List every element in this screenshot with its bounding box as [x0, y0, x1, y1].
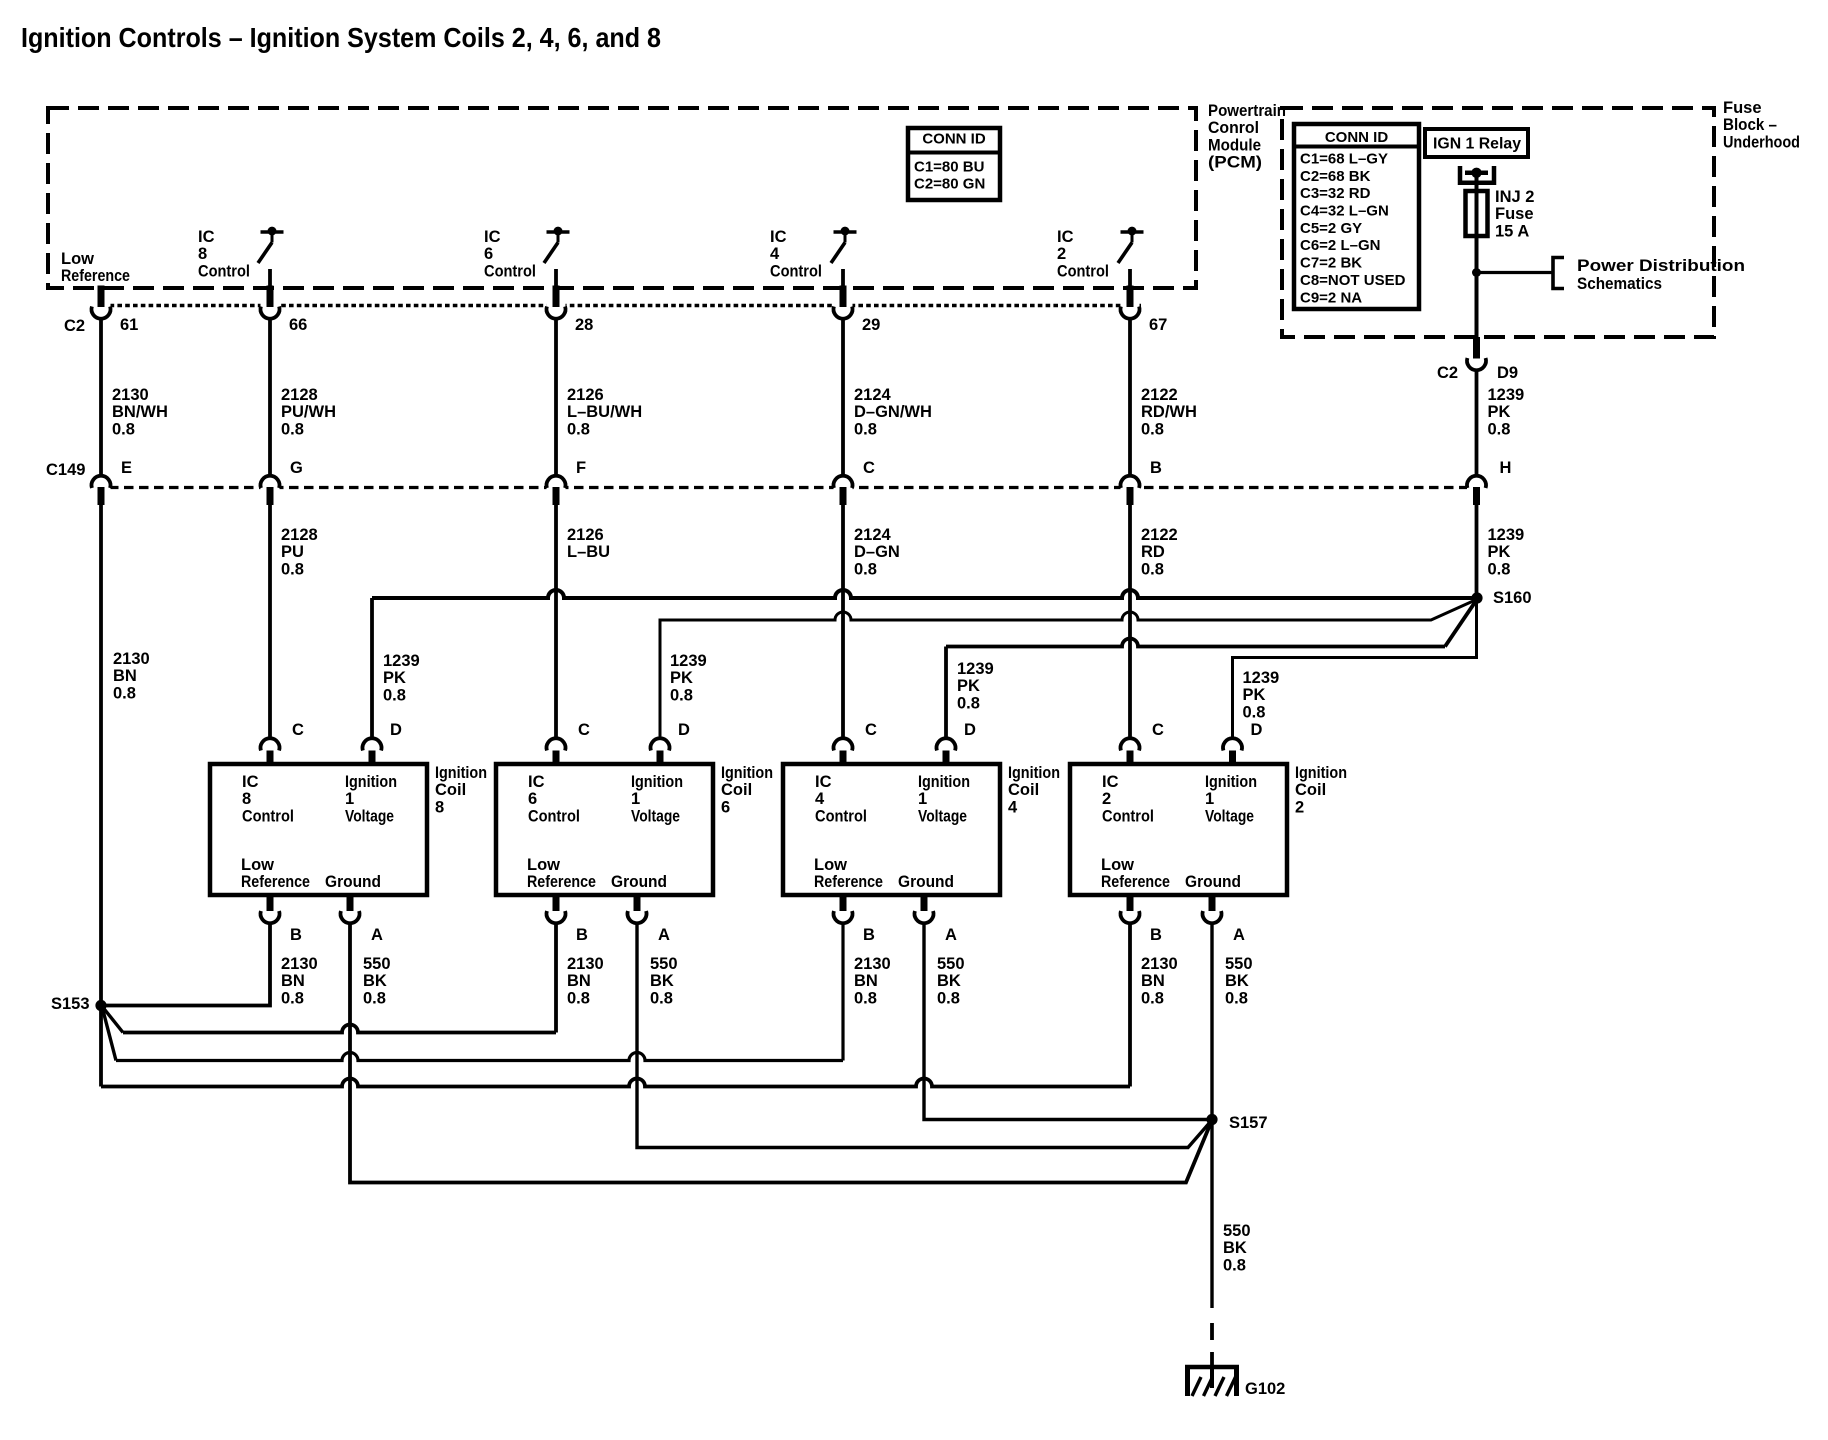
wire 550 BK coil 6 ground bus: [637, 924, 1212, 1148]
svg-text:S157: S157: [1229, 1114, 1268, 1132]
svg-text:0.8: 0.8: [113, 684, 136, 702]
svg-text:2124: 2124: [854, 386, 892, 404]
svg-text:0.8: 0.8: [112, 420, 135, 438]
svg-text:IC: IC: [528, 773, 545, 791]
svg-text:Ignition Controls – Ignition S: Ignition Controls – Ignition System Coil…: [21, 22, 661, 53]
ignition coil 4 (U4): [783, 764, 1060, 895]
svg-text:Ignition: Ignition: [721, 764, 773, 782]
svg-text:1: 1: [631, 790, 640, 808]
ignition coil 4 connector pin D: [937, 721, 977, 764]
svg-text:Voltage: Voltage: [1205, 807, 1254, 825]
svg-text:0.8: 0.8: [854, 989, 877, 1007]
svg-text:1239: 1239: [1488, 526, 1525, 544]
svg-text:Low: Low: [61, 250, 94, 268]
svg-text:PU: PU: [281, 543, 304, 561]
svg-text:IGN 1 Relay: IGN 1 Relay: [1433, 136, 1521, 153]
svg-text:C: C: [865, 721, 877, 739]
wire label 2130 BN coil 6: [567, 955, 604, 1007]
svg-text:1239: 1239: [1488, 386, 1525, 404]
wire 1239 PK branch to coil 4 pin D: [946, 600, 1477, 738]
svg-text:S153: S153: [51, 995, 90, 1013]
svg-text:2130: 2130: [854, 955, 891, 973]
svg-text:Control: Control: [484, 262, 536, 280]
svg-text:C2=80 GN: C2=80 GN: [914, 176, 985, 193]
connector C149 terminal F: [547, 459, 587, 505]
svg-text:L–BU: L–BU: [567, 543, 610, 561]
svg-text:C: C: [1152, 721, 1164, 739]
wire label 2130 BN coil 2: [1141, 955, 1178, 1007]
svg-text:Ignition: Ignition: [1008, 764, 1060, 782]
svg-text:BN: BN: [113, 667, 137, 685]
svg-text:0.8: 0.8: [854, 420, 877, 438]
svg-text:CONN ID: CONN ID: [1325, 129, 1389, 146]
fuse INJ 2 15 A: [1466, 188, 1535, 240]
svg-text:0.8: 0.8: [1225, 989, 1248, 1007]
svg-text:Fuse: Fuse: [1495, 205, 1534, 223]
svg-text:B: B: [863, 926, 875, 944]
svg-text:0.8: 0.8: [1141, 420, 1164, 438]
svg-text:IC: IC: [198, 228, 215, 246]
wire 1239 PK from C149-H to S160: [1477, 505, 1525, 598]
svg-text:550: 550: [363, 955, 391, 973]
svg-text:2130: 2130: [113, 650, 150, 668]
svg-text:Block –: Block –: [1723, 116, 1777, 134]
svg-text:PK: PK: [1243, 686, 1266, 704]
svg-text:1: 1: [345, 790, 354, 808]
connector C2 terminal 61: [91, 286, 138, 335]
svg-text:BN: BN: [854, 972, 878, 990]
svg-text:67: 67: [1149, 316, 1167, 334]
svg-text:PK: PK: [1488, 403, 1511, 421]
svg-text:6: 6: [528, 790, 537, 808]
svg-text:A: A: [658, 926, 670, 944]
svg-text:Control: Control: [528, 807, 580, 825]
wire label 2130 BN coil 8: [281, 955, 318, 1007]
svg-text:C2: C2: [64, 317, 85, 335]
svg-text:Conrol: Conrol: [1208, 119, 1259, 137]
svg-text:PK: PK: [957, 677, 980, 695]
svg-text:0.8: 0.8: [670, 686, 693, 704]
connector C149 terminal H: [1467, 459, 1511, 505]
splice S157: [1206, 1114, 1267, 1132]
svg-text:0.8: 0.8: [363, 989, 386, 1007]
splice S160: [1471, 589, 1531, 607]
svg-text:Ignition: Ignition: [918, 773, 970, 791]
IGN 1 relay contact terminal: [1460, 166, 1494, 191]
svg-text:Control: Control: [1057, 262, 1109, 280]
junction node: [1472, 268, 1481, 277]
PCM driver switch IC 8 Control: [198, 227, 284, 294]
ignition coil 8 connector pin D: [363, 721, 403, 764]
svg-text:0.8: 0.8: [1141, 989, 1164, 1007]
PCM driver switch IC 6 Control: [484, 227, 570, 294]
svg-text:CONN ID: CONN ID: [922, 131, 986, 148]
wire 2126 L-BU from C149-F to coil 6 pin C: [556, 505, 610, 738]
svg-text:Low: Low: [814, 856, 847, 874]
ignition coil 4 connector pin C: [833, 721, 877, 764]
svg-text:4: 4: [815, 790, 825, 808]
svg-text:4: 4: [770, 245, 780, 263]
svg-text:66: 66: [289, 316, 307, 334]
ignition coil 2 connector pin A: [1202, 895, 1245, 944]
svg-text:G: G: [290, 459, 303, 477]
svg-text:Ignition: Ignition: [345, 773, 397, 791]
svg-text:C6=2 L–GN: C6=2 L–GN: [1300, 237, 1380, 254]
svg-text:0.8: 0.8: [1488, 560, 1511, 578]
svg-text:Coil: Coil: [435, 781, 466, 799]
svg-text:0.8: 0.8: [281, 420, 304, 438]
ignition coil 2 connector pin D: [1223, 721, 1263, 764]
connector C149 terminal C: [834, 459, 876, 505]
svg-text:BK: BK: [937, 972, 961, 990]
svg-text:BN: BN: [567, 972, 591, 990]
svg-text:C5=2 GY: C5=2 GY: [1300, 220, 1362, 237]
wire 2130 BN bus to coil 2 pin B: [101, 924, 1130, 1087]
svg-text:2130: 2130: [281, 955, 318, 973]
svg-text:1: 1: [918, 790, 927, 808]
ignition coil 8 connector pin A: [341, 895, 384, 944]
svg-text:Ground: Ground: [611, 873, 667, 891]
ignition coil 6 connector pin C: [547, 721, 591, 764]
svg-text:550: 550: [650, 955, 678, 973]
svg-text:C2: C2: [1437, 364, 1458, 382]
svg-text:A: A: [945, 926, 957, 944]
svg-text:A: A: [1233, 926, 1245, 944]
svg-text:29: 29: [862, 316, 880, 334]
svg-text:1239: 1239: [1243, 669, 1280, 687]
ground G102: [1185, 1367, 1285, 1398]
svg-text:Voltage: Voltage: [918, 807, 967, 825]
wire 1239 PK from D9 to C149-H: [1477, 370, 1525, 475]
svg-text:Schematics: Schematics: [1577, 275, 1662, 293]
wire 550 BK coil 8 ground bus: [350, 924, 1212, 1183]
svg-text:IC: IC: [484, 228, 501, 246]
svg-text:Ignition: Ignition: [435, 764, 487, 782]
wire 1239 PK branch to coil 6 pin D: [660, 600, 1477, 739]
svg-text:0.8: 0.8: [1141, 560, 1164, 578]
wire 2122 RD from C149-B to coil 2 pin B: [1130, 505, 1178, 738]
svg-text:B: B: [576, 926, 588, 944]
connector C149 terminal E: [91, 459, 132, 505]
svg-text:PK: PK: [1488, 543, 1511, 561]
svg-text:2126: 2126: [567, 386, 604, 404]
svg-text:Fuse: Fuse: [1723, 99, 1762, 117]
svg-text:Voltage: Voltage: [345, 807, 394, 825]
svg-text:1239: 1239: [957, 660, 994, 678]
wire 2126 L–BU/WH from C2 to C149: [556, 318, 642, 475]
wire 550 BK coil 2 ground bus: [1210, 924, 1213, 1120]
ignition coil 6 connector pin B: [547, 895, 589, 944]
svg-text:Low: Low: [241, 856, 274, 874]
ignition coil 8 connector pin B: [261, 895, 303, 944]
svg-text:Module: Module: [1208, 136, 1261, 154]
svg-text:Ground: Ground: [325, 873, 381, 891]
svg-text:2: 2: [1102, 790, 1111, 808]
svg-text:BK: BK: [1225, 972, 1249, 990]
svg-text:Ground: Ground: [898, 873, 954, 891]
svg-text:F: F: [576, 459, 586, 477]
svg-text:4: 4: [1008, 798, 1018, 816]
wire junction to fuse block edge: [1475, 273, 1479, 338]
wire 2122 RD/WH from C2 to C149: [1130, 318, 1197, 475]
svg-text:C: C: [863, 459, 875, 477]
svg-text:Low: Low: [1101, 856, 1134, 874]
svg-text:C9=2 NA: C9=2 NA: [1300, 289, 1362, 306]
svg-text:BN: BN: [1141, 972, 1165, 990]
connector C149 terminal G: [261, 459, 303, 505]
svg-text:C1=68 L–GY: C1=68 L–GY: [1300, 151, 1388, 168]
wire label 550 BK coil 2: [1225, 955, 1253, 1007]
wire 2130 BN bus to coil 6 pin B: [103, 924, 556, 1033]
svg-text:Reference: Reference: [527, 873, 596, 891]
PCM CONN ID table: [908, 128, 1000, 200]
wire 550 BK coil 4 ground bus: [924, 924, 1212, 1120]
svg-text:Ignition: Ignition: [631, 773, 683, 791]
svg-text:2122: 2122: [1141, 386, 1178, 404]
Power Distribution Schematics reference: [1553, 257, 1745, 293]
svg-text:0.8: 0.8: [281, 560, 304, 578]
svg-text:IC: IC: [770, 228, 787, 246]
svg-text:2122: 2122: [1141, 526, 1178, 544]
svg-text:Control: Control: [198, 262, 250, 280]
wire 2130 BN bus to coil 8 pin B: [101, 924, 270, 1006]
svg-text:Coil: Coil: [1295, 781, 1326, 799]
svg-text:RD/WH: RD/WH: [1141, 403, 1197, 421]
connector C149 label: [46, 461, 85, 479]
svg-text:BK: BK: [363, 972, 387, 990]
wire fuse to junction: [1475, 236, 1479, 272]
svg-text:0.8: 0.8: [1488, 420, 1511, 438]
svg-text:0.8: 0.8: [1223, 1256, 1246, 1274]
ignition coil 6 connector pin D: [651, 721, 690, 764]
svg-text:BN: BN: [281, 972, 305, 990]
svg-text:0.8: 0.8: [1243, 703, 1266, 721]
svg-text:Reference: Reference: [241, 873, 310, 891]
svg-text:2130: 2130: [112, 386, 149, 404]
svg-text:B: B: [290, 926, 302, 944]
connector C2 dotted line: [94, 304, 1141, 307]
svg-text:BK: BK: [1223, 1239, 1247, 1257]
wire junction to Power Distribution bracket: [1477, 271, 1553, 274]
svg-text:550: 550: [937, 955, 965, 973]
svg-text:S160: S160: [1493, 589, 1532, 607]
wire 2128 PU/WH from C2 to C149: [270, 318, 336, 475]
svg-text:Voltage: Voltage: [631, 807, 680, 825]
svg-text:C8=NOT USED: C8=NOT USED: [1300, 272, 1406, 289]
PCM driver switch IC 2 Control: [1057, 227, 1144, 294]
svg-text:28: 28: [575, 316, 593, 334]
wire 1239 PK branch to coil 2 pin D: [1233, 598, 1477, 738]
wire label 550 BK coil 6: [650, 955, 678, 1007]
svg-text:C7=2 BK: C7=2 BK: [1300, 255, 1362, 272]
svg-text:0.8: 0.8: [650, 989, 673, 1007]
ignition coil 8 (U8): [210, 764, 487, 895]
svg-text:D–GN: D–GN: [854, 543, 900, 561]
svg-text:Reference: Reference: [1101, 873, 1170, 891]
svg-text:2: 2: [1295, 798, 1304, 816]
svg-text:0.8: 0.8: [854, 560, 877, 578]
svg-text:0.8: 0.8: [281, 989, 304, 1007]
svg-text:6: 6: [721, 798, 730, 816]
PCM label: [1208, 102, 1286, 172]
svg-text:1239: 1239: [383, 652, 420, 670]
PCM output Low Reference label: [61, 250, 130, 285]
svg-text:IC: IC: [815, 773, 832, 791]
IGN 1 Relay box: [1425, 129, 1528, 157]
svg-text:IC: IC: [1102, 773, 1119, 791]
connector C2 terminal D9: [1437, 337, 1518, 382]
svg-text:Control: Control: [770, 262, 822, 280]
svg-text:B: B: [1150, 459, 1162, 477]
splice S153: [51, 995, 107, 1013]
svg-text:2124: 2124: [854, 526, 892, 544]
svg-text:Underhood: Underhood: [1723, 133, 1800, 151]
svg-text:Reference: Reference: [61, 267, 130, 285]
svg-text:D: D: [678, 721, 690, 739]
connector C149 terminal B: [1121, 459, 1163, 505]
connector C2 terminal 67: [1121, 286, 1168, 335]
svg-text:2128: 2128: [281, 386, 318, 404]
svg-text:C: C: [578, 721, 590, 739]
connector C149 dashed line: [94, 486, 1477, 489]
wire 1239 PK branch to coil 8 pin D: [372, 590, 1477, 738]
ignition coil 4 connector pin A: [915, 895, 958, 944]
svg-text:550: 550: [1223, 1222, 1251, 1240]
svg-text:G102: G102: [1245, 1380, 1285, 1398]
svg-text:0.8: 0.8: [567, 989, 590, 1007]
wire 550 BK to ground G102: [1212, 1120, 1251, 1368]
Fuse Block label: [1723, 99, 1800, 151]
svg-text:2: 2: [1057, 245, 1066, 263]
svg-text:A: A: [371, 926, 383, 944]
svg-text:2130: 2130: [1141, 955, 1178, 973]
svg-text:IC: IC: [242, 773, 259, 791]
svg-text:0.8: 0.8: [383, 686, 406, 704]
connector C2 terminal 28: [547, 286, 594, 335]
wire label 550 BK coil 4: [937, 955, 965, 1007]
wire 2124 D-GN from C149-C to coil 4 pin C: [843, 505, 900, 738]
ignition coil 2 connector pin C: [1120, 721, 1164, 764]
svg-text:Control: Control: [815, 807, 867, 825]
svg-text:0.8: 0.8: [957, 694, 980, 712]
svg-text:Power Distribution: Power Distribution: [1577, 257, 1745, 275]
svg-text:61: 61: [120, 316, 138, 334]
svg-text:D: D: [964, 721, 976, 739]
wire 2128 PU from C149-G to coil 8 pin C: [270, 505, 318, 738]
svg-text:550: 550: [1225, 955, 1253, 973]
svg-text:E: E: [121, 459, 132, 477]
svg-text:Powertrain: Powertrain: [1208, 102, 1286, 120]
svg-text:C3=32 RD: C3=32 RD: [1300, 185, 1371, 202]
connector C2 label: [64, 317, 85, 335]
ignition coil 2 (U2): [1070, 764, 1347, 895]
ignition coil 6 (U6): [496, 764, 773, 895]
svg-text:Ignition: Ignition: [1205, 773, 1257, 791]
svg-text:C2=68 BK: C2=68 BK: [1300, 168, 1371, 185]
svg-text:L–BU/WH: L–BU/WH: [567, 403, 642, 421]
svg-text:D: D: [1251, 721, 1263, 739]
connector C2 terminal 66: [261, 286, 308, 335]
svg-text:Control: Control: [242, 807, 294, 825]
svg-text:PK: PK: [670, 669, 693, 687]
svg-text:D: D: [390, 721, 402, 739]
svg-text:IC: IC: [1057, 228, 1074, 246]
ignition coil 6 connector pin A: [627, 895, 670, 944]
connector C2 terminal 29: [834, 286, 881, 335]
svg-text:D–GN/WH: D–GN/WH: [854, 403, 932, 421]
svg-text:2130: 2130: [567, 955, 604, 973]
wire 2130 BN/WH from C2 to C149: [101, 318, 168, 475]
svg-text:Reference: Reference: [814, 873, 883, 891]
wire label 550 BK coil 8: [363, 955, 391, 1007]
svg-text:H: H: [1500, 459, 1512, 477]
ignition coil 2 connector pin B: [1120, 895, 1162, 944]
wire 2130 BN bus to coil 4 pin B: [103, 924, 844, 1061]
svg-text:PK: PK: [383, 669, 406, 687]
svg-text:C: C: [292, 721, 304, 739]
svg-text:2126: 2126: [567, 526, 604, 544]
wire 2124 D–GN/WH from C2 to C149: [843, 318, 932, 475]
svg-text:0.8: 0.8: [567, 420, 590, 438]
svg-text:C149: C149: [46, 461, 85, 479]
svg-text:BN/WH: BN/WH: [112, 403, 168, 421]
svg-text:D9: D9: [1497, 364, 1518, 382]
svg-text:1: 1: [1205, 790, 1214, 808]
svg-text:Control: Control: [1102, 807, 1154, 825]
svg-text:BK: BK: [650, 972, 674, 990]
svg-text:8: 8: [198, 245, 207, 263]
svg-text:C4=32 L–GN: C4=32 L–GN: [1300, 203, 1389, 220]
svg-text:RD: RD: [1141, 543, 1165, 561]
Fuse Block CONN ID table: [1294, 124, 1419, 309]
svg-text:Low: Low: [527, 856, 560, 874]
svg-text:8: 8: [242, 790, 251, 808]
svg-text:Ignition: Ignition: [1295, 764, 1347, 782]
ignition coil 4 connector pin B: [833, 895, 875, 944]
svg-text:0.8: 0.8: [937, 989, 960, 1007]
svg-text:Ground: Ground: [1185, 873, 1241, 891]
svg-text:INJ 2: INJ 2: [1495, 188, 1534, 206]
svg-text:6: 6: [484, 245, 493, 263]
svg-text:2128: 2128: [281, 526, 318, 544]
ignition coil 8 connector pin C: [261, 721, 305, 764]
svg-text:1239: 1239: [670, 652, 707, 670]
svg-text:B: B: [1150, 926, 1162, 944]
title: [21, 22, 661, 53]
svg-text:(PCM): (PCM): [1208, 154, 1262, 172]
svg-text:15 A: 15 A: [1495, 222, 1529, 240]
wire label 2130 BN coil 4: [854, 955, 891, 1007]
svg-text:Coil: Coil: [721, 781, 752, 799]
svg-text:PU/WH: PU/WH: [281, 403, 336, 421]
wire 2130 BN from C149-E to S153: [101, 505, 150, 1001]
Fuse Block - Underhood box: [1282, 108, 1714, 337]
svg-text:Coil: Coil: [1008, 781, 1039, 799]
svg-text:8: 8: [435, 798, 444, 816]
Powertrain Control Module (PCM) box: [48, 108, 1196, 288]
PCM driver switch IC 4 Control: [770, 227, 857, 294]
svg-text:C1=80 BU: C1=80 BU: [914, 159, 984, 176]
